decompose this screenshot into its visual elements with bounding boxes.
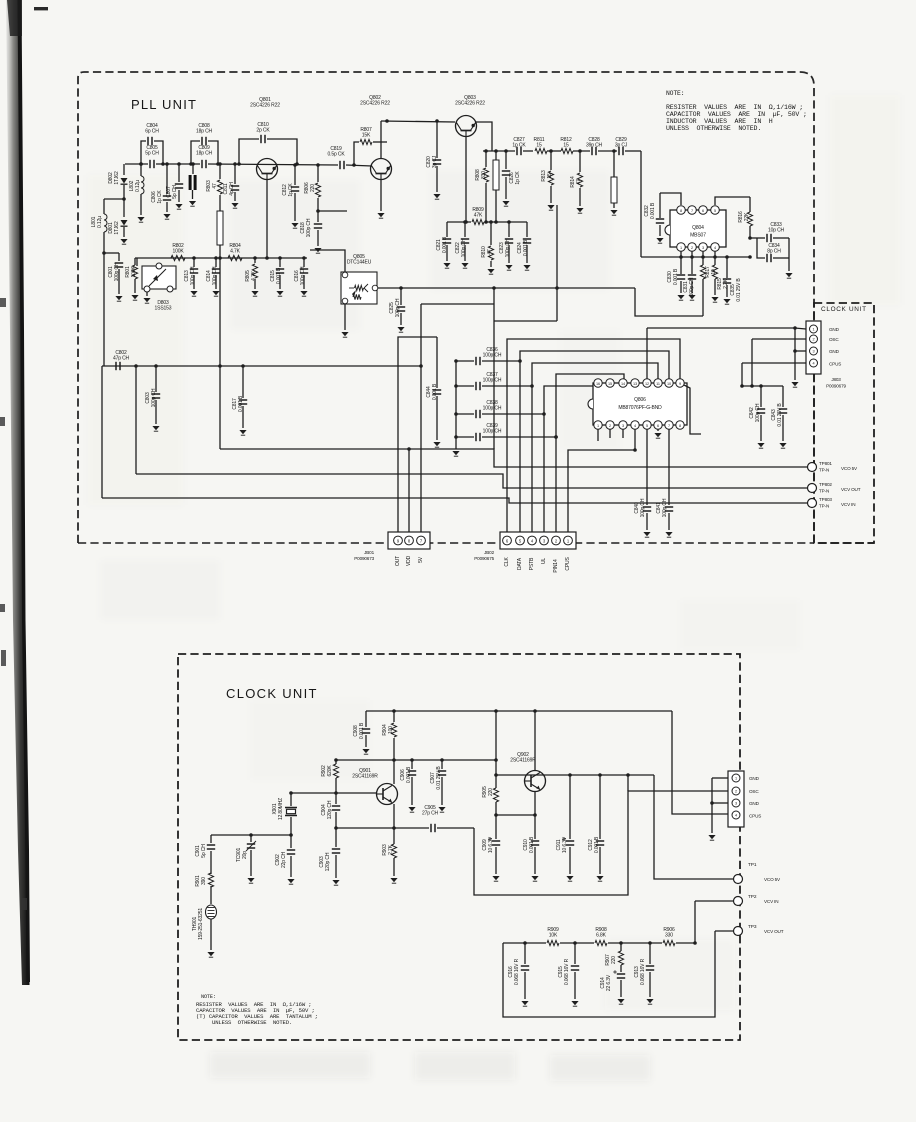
svg-text:TP-N: TP-N xyxy=(819,468,829,473)
svg-text:6: 6 xyxy=(657,424,659,428)
svg-text:39p CH: 39p CH xyxy=(586,143,603,149)
svg-text:120p CH: 120p CH xyxy=(327,800,333,819)
svg-text:0.001 B: 0.001 B xyxy=(432,383,438,400)
svg-text:1p CK: 1p CK xyxy=(157,190,163,204)
svg-text:47: 47 xyxy=(487,249,493,255)
svg-text:15: 15 xyxy=(547,173,553,179)
svg-text:100p CH: 100p CH xyxy=(483,406,502,412)
svg-text:VCO 5V: VCO 5V xyxy=(764,877,781,882)
svg-text:0.068 16V R: 0.068 16V R xyxy=(514,958,520,985)
svg-text:OUT: OUT xyxy=(395,556,401,566)
svg-text:4.7K: 4.7K xyxy=(251,270,257,281)
svg-text:4p CH: 4p CH xyxy=(229,182,235,196)
svg-text:PLL UNIT: PLL UNIT xyxy=(131,97,197,112)
svg-text:0.001 B: 0.001 B xyxy=(276,267,282,284)
svg-text:3p CJ: 3p CJ xyxy=(432,155,438,168)
svg-text:47: 47 xyxy=(576,179,582,185)
svg-text:100: 100 xyxy=(388,726,394,734)
svg-text:GND: GND xyxy=(829,327,840,332)
svg-text:15: 15 xyxy=(563,143,569,149)
svg-text:2SC41169R: 2SC41169R xyxy=(352,774,378,780)
svg-text:5p CH: 5p CH xyxy=(145,151,159,157)
svg-text:6p CH: 6p CH xyxy=(145,129,159,135)
svg-text:330: 330 xyxy=(665,933,673,939)
svg-text:220: 220 xyxy=(488,788,494,796)
svg-text:TP-N: TP-N xyxy=(819,504,829,509)
svg-text:3: 3 xyxy=(813,350,815,354)
svg-text:5p CH: 5p CH xyxy=(172,185,178,199)
svg-text:220: 220 xyxy=(310,184,316,192)
svg-text:100p CH: 100p CH xyxy=(212,266,218,285)
svg-text:0.068 16V R: 0.068 16V R xyxy=(640,958,646,985)
svg-text:NOTE:: NOTE: xyxy=(666,90,684,97)
svg-text:VCV IN: VCV IN xyxy=(764,899,778,904)
svg-text:J803: J803 xyxy=(831,377,841,382)
svg-text:5: 5 xyxy=(646,424,648,428)
svg-text:10: 10 xyxy=(711,269,717,275)
svg-text:1SS153: 1SS153 xyxy=(155,306,172,312)
svg-text:120p CH: 120p CH xyxy=(325,852,331,871)
svg-text:0.001 B: 0.001 B xyxy=(523,239,529,256)
svg-text:PIN14: PIN14 xyxy=(553,559,559,573)
svg-text:10 6.3V: 10 6.3V xyxy=(562,836,568,853)
svg-text:0.01 25V B: 0.01 25V B xyxy=(736,278,742,302)
svg-text:3: 3 xyxy=(702,246,704,250)
svg-text:4: 4 xyxy=(813,362,815,366)
svg-text:100p CH: 100p CH xyxy=(306,218,312,237)
svg-text:1p CK: 1p CK xyxy=(515,171,521,185)
svg-text:18p CH: 18p CH xyxy=(196,151,213,157)
svg-text:2SC4226 R22: 2SC4226 R22 xyxy=(360,101,390,107)
svg-text:UL: UL xyxy=(541,558,547,564)
svg-text:4: 4 xyxy=(714,246,716,250)
svg-text:MB87076PF-G-BND: MB87076PF-G-BND xyxy=(618,405,662,411)
svg-text:0.001 B: 0.001 B xyxy=(406,766,412,783)
svg-text:P0090679: P0090679 xyxy=(826,384,846,389)
svg-text:PSTB: PSTB xyxy=(529,557,535,570)
svg-text:0.12µ: 0.12µ xyxy=(135,180,141,192)
svg-text:0.01 25V B: 0.01 25V B xyxy=(436,766,442,790)
svg-text:15K: 15K xyxy=(362,133,371,139)
svg-text:VDD: VDD xyxy=(406,555,412,566)
svg-text:OSC: OSC xyxy=(749,789,759,794)
svg-text:100p CH: 100p CH xyxy=(505,238,511,257)
svg-text:4: 4 xyxy=(634,424,636,428)
svg-text:330: 330 xyxy=(481,171,487,179)
svg-text:Q804: Q804 xyxy=(692,225,704,231)
svg-text:1TJ62: 1TJ62 xyxy=(114,221,120,235)
svg-text:620K: 620K xyxy=(327,765,333,777)
svg-text:CPUS: CPUS xyxy=(565,557,571,571)
svg-text:2: 2 xyxy=(813,338,815,342)
svg-text:UNLESS OTHERWISE NOTED.: UNLESS OTHERWISE NOTED. xyxy=(666,125,761,132)
svg-text:12: 12 xyxy=(645,382,649,386)
svg-text:TP803: TP803 xyxy=(819,497,832,502)
svg-text:47K: 47K xyxy=(474,213,483,219)
svg-text:14: 14 xyxy=(621,382,625,386)
svg-text:15: 15 xyxy=(608,382,612,386)
svg-text:P0090675: P0090675 xyxy=(474,556,494,561)
svg-text:220: 220 xyxy=(611,956,617,964)
svg-text:100p CH: 100p CH xyxy=(395,298,401,317)
svg-text:11: 11 xyxy=(656,382,660,386)
svg-text:VCV OUT: VCV OUT xyxy=(764,929,784,934)
svg-text:RESISTER VALUES ARE IN Ω,1: RESISTER VALUES ARE IN Ω,1/16W ; xyxy=(666,104,803,111)
svg-text:4: 4 xyxy=(735,814,737,818)
svg-text:TP2: TP2 xyxy=(748,894,757,900)
svg-text:0.001 B: 0.001 B xyxy=(650,202,656,219)
svg-text:GND: GND xyxy=(829,349,840,354)
svg-text:GND: GND xyxy=(749,801,760,806)
svg-text:TP-N: TP-N xyxy=(819,489,829,494)
svg-text:8: 8 xyxy=(679,424,681,428)
svg-text:10: 10 xyxy=(667,382,671,386)
svg-text:NOTE:: NOTE: xyxy=(201,994,216,1000)
svg-text:JB01: JB01 xyxy=(364,550,374,555)
svg-text:P0090673: P0090673 xyxy=(354,556,374,561)
svg-text:15: 15 xyxy=(536,143,542,149)
svg-text:0.068 16V R: 0.068 16V R xyxy=(564,958,570,985)
svg-text:10K: 10K xyxy=(549,933,558,939)
svg-text:2SC4226 R22: 2SC4226 R22 xyxy=(455,101,485,107)
svg-text:2SC4226 R22: 2SC4226 R22 xyxy=(250,103,280,109)
svg-text:CLOCK UNIT: CLOCK UNIT xyxy=(226,686,318,701)
svg-text:159-251-63251: 159-251-63251 xyxy=(198,908,204,940)
svg-text:47: 47 xyxy=(212,183,218,189)
svg-text:1TJ62: 1TJ62 xyxy=(114,171,120,185)
svg-text:INDUCTOR VALUES ARE IN H: INDUCTOR VALUES ARE IN H xyxy=(666,118,773,125)
svg-text:390: 390 xyxy=(201,877,207,885)
svg-text:20p: 20p xyxy=(242,851,248,859)
svg-text:100p CH: 100p CH xyxy=(689,277,695,296)
svg-text:22K: 22K xyxy=(744,212,750,221)
svg-text:100p CH: 100p CH xyxy=(114,262,120,281)
svg-text:DATA: DATA xyxy=(517,557,523,570)
svg-text:0.001 B: 0.001 B xyxy=(673,268,679,285)
svg-text:10p CH: 10p CH xyxy=(768,228,785,234)
svg-text:22 6.3V: 22 6.3V xyxy=(606,974,612,991)
svg-text:VCV IN: VCV IN xyxy=(841,502,855,507)
svg-text:100p CH: 100p CH xyxy=(640,498,646,517)
svg-text:TP1: TP1 xyxy=(748,862,757,868)
svg-text:100p CH: 100p CH xyxy=(300,266,306,285)
svg-text:8: 8 xyxy=(680,209,682,213)
svg-text:12.80MHZ: 12.80MHZ xyxy=(278,798,284,820)
svg-text:DTC144EU: DTC144EU xyxy=(347,260,372,266)
svg-text:13: 13 xyxy=(633,382,637,386)
svg-text:3: 3 xyxy=(622,424,624,428)
svg-text:100p CH: 100p CH xyxy=(190,266,196,285)
svg-text:6: 6 xyxy=(702,209,704,213)
svg-text:7: 7 xyxy=(691,209,693,213)
svg-text:100p CH: 100p CH xyxy=(483,429,502,435)
svg-text:2SC41169R: 2SC41169R xyxy=(510,758,536,764)
svg-text:100K: 100K xyxy=(131,266,137,278)
svg-text:16: 16 xyxy=(596,382,600,386)
svg-text:100p CH: 100p CH xyxy=(483,353,502,359)
svg-text:2: 2 xyxy=(735,790,737,794)
svg-text:VCV OUT: VCV OUT xyxy=(841,487,861,492)
svg-text:0.001 B: 0.001 B xyxy=(594,836,600,853)
svg-text:5V: 5V xyxy=(418,556,424,563)
svg-text:7: 7 xyxy=(668,424,670,428)
svg-text:2.2K: 2.2K xyxy=(723,278,729,289)
svg-text:GND: GND xyxy=(749,776,760,781)
svg-text:3p CJ: 3p CJ xyxy=(615,143,628,149)
svg-text:CPUS: CPUS xyxy=(829,362,841,367)
svg-text:UNLESS OTHERWISE NOTED.: UNLESS OTHERWISE NOTED. xyxy=(212,1019,292,1026)
svg-text:1p CK: 1p CK xyxy=(288,183,294,197)
svg-text:MBS07: MBS07 xyxy=(690,233,706,239)
svg-text:2: 2 xyxy=(691,246,693,250)
svg-text:0.001 B: 0.001 B xyxy=(238,395,244,412)
svg-text:TP802: TP802 xyxy=(819,482,832,487)
svg-text:27p CH: 27p CH xyxy=(422,811,439,817)
svg-text:VCO 5V: VCO 5V xyxy=(841,466,858,471)
svg-text:2p CK: 2p CK xyxy=(256,128,270,134)
svg-text:47p CH: 47p CH xyxy=(113,356,130,362)
svg-text:6.8K: 6.8K xyxy=(596,933,607,939)
svg-text:0.001 B: 0.001 B xyxy=(442,236,448,253)
svg-text:TP3: TP3 xyxy=(748,924,757,930)
svg-text:CLK: CLK xyxy=(504,557,510,567)
svg-text:18p CH: 18p CH xyxy=(196,129,213,135)
svg-text:OSC: OSC xyxy=(829,337,839,342)
svg-text:100p CH: 100p CH xyxy=(461,238,467,257)
svg-text:0.12µ: 0.12µ xyxy=(97,216,103,228)
svg-text:0.001 B: 0.001 B xyxy=(359,722,365,739)
svg-text:4.7K: 4.7K xyxy=(230,249,241,255)
svg-text:22p CH: 22p CH xyxy=(281,851,287,868)
svg-text:100K: 100K xyxy=(172,249,184,255)
svg-text:1: 1 xyxy=(680,246,682,250)
svg-text:100p CH: 100p CH xyxy=(755,403,761,422)
svg-text:0.5p CK: 0.5p CK xyxy=(327,152,345,158)
svg-text:8p CH: 8p CH xyxy=(767,249,781,255)
svg-text:2.7K: 2.7K xyxy=(388,844,394,855)
svg-text:0.001 B: 0.001 B xyxy=(529,836,535,853)
svg-text:JB02: JB02 xyxy=(484,550,494,555)
svg-text:100p CH: 100p CH xyxy=(662,498,668,517)
svg-text:100p CH: 100p CH xyxy=(483,378,502,384)
svg-text:10 6.3V: 10 6.3V xyxy=(488,836,494,853)
svg-text:CAPACITOR VALUES ARE IN µF: CAPACITOR VALUES ARE IN µF, 50V ; xyxy=(666,111,807,118)
svg-text:CLOCK UNIT: CLOCK UNIT xyxy=(821,306,867,313)
svg-text:Q806: Q806 xyxy=(634,397,646,403)
svg-text:100p CH: 100p CH xyxy=(151,388,157,407)
svg-text:3: 3 xyxy=(735,802,737,806)
svg-text:1: 1 xyxy=(735,777,737,781)
svg-text:TP801: TP801 xyxy=(819,461,832,466)
svg-text:1: 1 xyxy=(597,424,599,428)
svg-text:5: 5 xyxy=(714,209,716,213)
svg-text:1: 1 xyxy=(813,328,815,332)
svg-text:9: 9 xyxy=(679,382,681,386)
svg-text:0.01 25V B: 0.01 25V B xyxy=(777,403,783,427)
svg-text:2: 2 xyxy=(609,424,611,428)
svg-text:CPUS: CPUS xyxy=(749,814,761,819)
svg-text:5p CH: 5p CH xyxy=(201,844,207,858)
svg-text:1p CK: 1p CK xyxy=(512,143,526,149)
